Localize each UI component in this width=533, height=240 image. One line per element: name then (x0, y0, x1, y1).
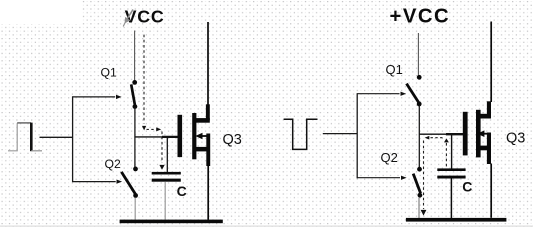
svg-text:+VCC: +VCC (390, 6, 451, 28)
ground rail (right) (406, 218, 507, 222)
capacitor C bottom plate (152, 179, 181, 182)
MOSFET Q3 drain stub (480, 114, 491, 119)
svg-text:Q2: Q2 (381, 150, 398, 165)
MOSFET Q3 source stub (196, 147, 209, 152)
switch Q2 blade (413, 174, 420, 194)
dashed current path: down into capacitor (161, 132, 163, 164)
dashed current path: horizontal jog (147, 128, 155, 130)
wire: Q2 bottom to ground (418, 197, 420, 218)
switch Q2 blade (121, 172, 135, 194)
capacitor C top plate (152, 172, 181, 175)
switch Q1 blade (131, 84, 135, 105)
switch Q1 bottom terminal dot (133, 104, 138, 109)
wire: top branch with arrow to Q1 (357, 93, 399, 95)
MOSFET Q3 body arrow (points left) (200, 135, 210, 137)
MOSFET Q3 gate bar (463, 112, 468, 156)
ground rail (left) (120, 220, 223, 224)
MOSFET Q3 drain stub (196, 118, 210, 123)
svg-text:Q3: Q3 (223, 132, 242, 148)
wire: pulse output to branch point (40, 136, 73, 138)
switch Q2 bottom terminal dot (133, 193, 138, 198)
wire: capacitor bottom to ground (450, 179, 452, 219)
wire: capacitor top plate to gate lead (166, 138, 168, 173)
MOSFET Q3 channel bar (192, 113, 196, 159)
wire: bottom branch with arrow to Q2 (357, 177, 400, 179)
MOSFET Q3 gate bar (178, 115, 183, 157)
dashed current path: horizontal jog (leftwards) (431, 137, 445, 139)
svg-text:Q1: Q1 (386, 62, 403, 77)
capacitor C bottom plate (437, 176, 465, 179)
dashed current path: capacitor up to gate line (445, 143, 447, 168)
wire: capacitor bottom to ground (164, 182, 166, 220)
wire: branch vertical (356, 93, 358, 178)
wire: drain rail upward (490, 22, 492, 103)
dashed current path: down through Q2 to ground (423, 141, 425, 210)
switch Q1 blade (407, 84, 420, 103)
MOSFET Q3 source stub (480, 146, 491, 151)
wire: gate lead from node to Q3 gate (419, 133, 446, 135)
switch Q2 top terminal dot (417, 167, 422, 172)
switch Q1 bottom terminal dot (417, 102, 422, 107)
wire: top branch with arrow to Q1 (73, 96, 116, 98)
wire: Q2 bottom to ground (134, 198, 136, 220)
MOSFET Q3 drain thick vertical (206, 104, 210, 120)
wire: gate lead from node to Q3 gate (135, 136, 162, 138)
input pulse waveform (positive pulse) (8, 123, 42, 152)
wire: pulse output to branch point (323, 133, 357, 135)
wire: VCC lead down to Q1 (134, 31, 136, 81)
MOSFET Q3 source thick vertical (206, 134, 210, 167)
MOSFET Q3 source thick vertical (487, 133, 491, 165)
wire: capacitor top plate to gate lead (451, 135, 453, 169)
wire: Q1 bottom to node to Q2 top (418, 106, 420, 168)
MOSFET Q3 channel bar (476, 110, 481, 158)
switch Q2 bottom terminal dot (418, 193, 423, 198)
svg-text:Q3: Q3 (506, 131, 525, 147)
wire: bottom branch with arrow to Q2 (73, 181, 116, 183)
switch Q1 top terminal dot (417, 75, 422, 80)
svg-text:Q2: Q2 (105, 157, 121, 171)
MOSFET Q3 drain thick vertical (487, 101, 491, 118)
MOSFET Q3 body arrow (points left) (483, 133, 491, 135)
wire: source to ground (490, 164, 492, 218)
svg-text:VCC: VCC (125, 7, 165, 27)
switch Q1 top terminal dot (132, 80, 137, 85)
wire: branch vertical (72, 96, 74, 182)
dashed current path: VCC down through Q1 (143, 35, 145, 124)
svg-text:C: C (177, 183, 187, 199)
capacitor C top plate (437, 168, 465, 171)
input pulse waveform (negative pulse) (284, 119, 318, 149)
switch Q2 top terminal dot (133, 167, 138, 172)
wire: Q1 bottom to node to Q2 top (134, 108, 136, 168)
svg-text:C: C (462, 179, 472, 195)
wire: source to ground (207, 166, 209, 220)
svg-text:Q1: Q1 (101, 66, 117, 80)
wire: drain rail upward (207, 22, 209, 105)
wire: VCC lead down to Q1 (417, 33, 419, 75)
